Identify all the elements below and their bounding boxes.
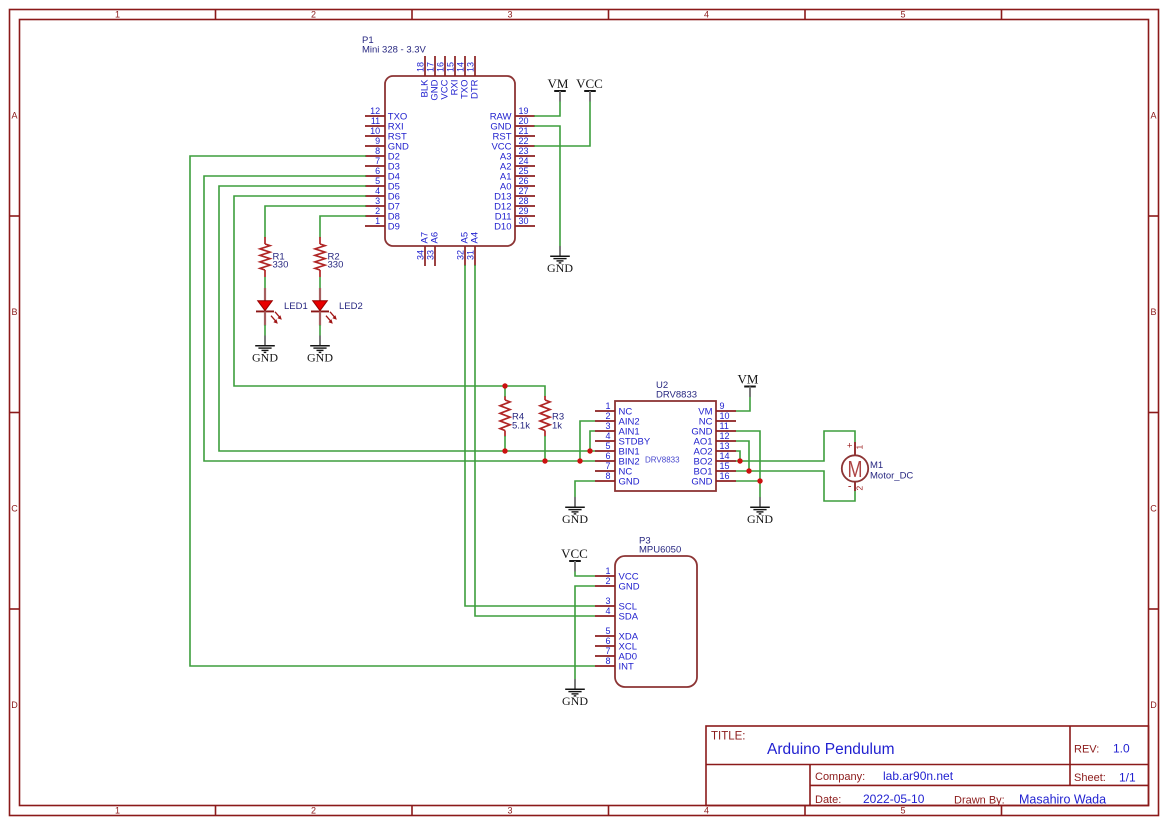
svg-text:D: D [11, 700, 18, 710]
svg-text:15: 15 [720, 461, 730, 471]
svg-text:6: 6 [375, 166, 380, 176]
P1 pin 3 D7 [365, 196, 400, 213]
svg-text:2022-05-10: 2022-05-10 [863, 792, 925, 806]
svg-text:30: 30 [519, 216, 529, 226]
P3 pin 3 SCL [595, 596, 637, 613]
svg-text:15: 15 [446, 62, 456, 72]
svg-text:GND: GND [562, 694, 588, 708]
svg-text:GND: GND [747, 512, 773, 526]
svg-text:5: 5 [375, 176, 380, 186]
wire AIN1 branch [590, 431, 595, 451]
svg-text:11: 11 [720, 421, 729, 431]
wire VM9 [736, 397, 750, 411]
power VCC at P3 [561, 546, 588, 571]
U2 pin 2 AIN2 [595, 411, 640, 428]
node AIN2-BIN2 [577, 458, 582, 463]
svg-text:20: 20 [519, 116, 529, 126]
P1 pin 5 D5 [365, 176, 400, 193]
svg-text:28: 28 [519, 196, 529, 206]
U2 pin 14 BO2 [693, 451, 736, 468]
U2 pin 16 GND [691, 471, 736, 488]
wire D6 to R4/R3 top [234, 196, 545, 397]
svg-text:MPU6050: MPU6050 [639, 545, 681, 556]
svg-text:SDA: SDA [619, 612, 639, 623]
svg-text:19: 19 [519, 106, 529, 116]
U2 pin 8 GND [595, 471, 640, 488]
wire AIN2 branch [580, 421, 595, 461]
P3 pin 8 INT [595, 656, 634, 673]
wire GND16 [736, 480, 760, 482]
P1 pin 12 TXO [365, 106, 407, 123]
svg-text:4: 4 [704, 806, 709, 816]
svg-text:INT: INT [619, 662, 635, 673]
P1 pin 15 RXI [446, 56, 461, 95]
P1 pin 10 RST [365, 126, 407, 143]
wire AO1 to BO1 [736, 441, 749, 471]
P3 pin 2 GND [595, 576, 640, 593]
U2 pin 1 NC [595, 401, 632, 418]
svg-text:1.0: 1.0 [1113, 742, 1130, 756]
P1 pin 17 GND [426, 56, 441, 101]
IC P3 MPU6050 [615, 536, 697, 688]
P1 pin 30 D10 [494, 216, 535, 233]
P1 pin 24 A2 [500, 156, 535, 173]
U2 pin 12 AO1 [693, 431, 736, 448]
wire RAW to VM [534, 102, 560, 117]
svg-text:Drawn By:: Drawn By: [954, 795, 1005, 807]
wire LED2 to GND [319, 325, 321, 336]
svg-text:1/1: 1/1 [1119, 771, 1136, 785]
svg-text:4: 4 [605, 606, 610, 616]
svg-text:5: 5 [900, 806, 905, 816]
svg-text:+: + [847, 441, 853, 452]
svg-text:24: 24 [519, 156, 529, 166]
svg-text:2: 2 [605, 576, 610, 586]
svg-text:330: 330 [273, 260, 289, 271]
svg-text:B: B [1150, 307, 1156, 317]
ground U2 right GND [747, 497, 773, 526]
wire P1 GND [534, 126, 560, 246]
svg-text:33: 33 [426, 250, 436, 260]
svg-text:29: 29 [519, 206, 529, 216]
P1 pin 20 GND [490, 116, 535, 133]
svg-text:M1: M1 [870, 460, 883, 471]
ground LED2 GND [307, 336, 333, 365]
wire LED1 to GND [264, 325, 266, 336]
P1 pin 31 A4 [466, 232, 481, 266]
svg-text:VCC: VCC [561, 546, 588, 561]
motor M1 Motor_DC [842, 441, 914, 493]
wire GND11 [736, 431, 760, 497]
node R3 bottom / BIN2 [542, 458, 547, 463]
svg-text:4: 4 [605, 431, 610, 441]
svg-text:13: 13 [466, 62, 476, 72]
resistor R3 [540, 396, 564, 437]
svg-text:10: 10 [370, 126, 380, 136]
wire R3 bottom [544, 436, 546, 461]
P1 pin 1 D9 [365, 216, 400, 233]
LED LED1 [256, 288, 308, 326]
P3 pin 7 AD0 [595, 646, 637, 663]
U2 pin 5 BIN1 [595, 441, 640, 458]
P1 pin 9 GND [365, 136, 409, 153]
svg-text:27: 27 [519, 186, 529, 196]
node R4 top [502, 383, 507, 388]
svg-text:3: 3 [375, 196, 380, 206]
svg-text:2: 2 [311, 10, 316, 20]
svg-text:330: 330 [328, 260, 344, 271]
wire VCC1 [575, 572, 595, 577]
P1 pin 32 A5 [456, 232, 471, 266]
wire R2 to LED2 [319, 277, 321, 289]
P1 pin 23 A3 [500, 146, 535, 163]
svg-text:6: 6 [605, 451, 610, 461]
svg-text:6: 6 [605, 636, 610, 646]
P1 pin 18 BLK [416, 56, 431, 97]
svg-text:18: 18 [416, 62, 426, 72]
svg-text:23: 23 [519, 146, 529, 156]
svg-text:7: 7 [605, 461, 610, 471]
P1 pin 19 RAW [490, 106, 535, 123]
wire D7 to R1 [265, 206, 366, 238]
svg-text:10: 10 [720, 411, 730, 421]
P1 pin 14 TXO [456, 56, 471, 99]
svg-text:GND: GND [691, 477, 712, 488]
svg-text:7: 7 [605, 646, 610, 656]
svg-text:TITLE:: TITLE: [711, 731, 746, 743]
svg-text:GND: GND [619, 582, 640, 593]
svg-text:3: 3 [507, 806, 512, 816]
svg-text:VCC: VCC [576, 76, 603, 91]
svg-text:1: 1 [115, 806, 120, 816]
svg-text:5.1k: 5.1k [512, 421, 530, 432]
wire BO1 to motor - [736, 471, 855, 501]
resistor R1 [260, 237, 288, 277]
svg-text:VM: VM [548, 76, 569, 91]
svg-text:1k: 1k [552, 421, 562, 432]
ground P3 GND [562, 679, 588, 708]
svg-text:13: 13 [720, 441, 730, 451]
P1 pin 25 A1 [500, 166, 535, 183]
P1 pin 33 A6 [426, 232, 441, 266]
svg-text:B: B [11, 307, 17, 317]
svg-text:8: 8 [605, 471, 610, 481]
P3 pin 6 XCL [595, 636, 637, 653]
svg-text:12: 12 [370, 106, 380, 116]
wire R1 to LED1 [264, 277, 266, 289]
wire BO2 to motor + [736, 431, 855, 461]
node GND11-GND16 [757, 478, 762, 483]
P1 pin 34 A7 [416, 232, 431, 266]
svg-text:3: 3 [605, 596, 610, 606]
svg-text:DRV8833: DRV8833 [656, 390, 697, 401]
ground U2 left GND [562, 497, 588, 526]
svg-text:1: 1 [605, 401, 610, 411]
svg-text:LED1: LED1 [284, 301, 308, 312]
U2 pin 11 GND [691, 421, 736, 438]
IC U2 DRV8833 [615, 380, 716, 491]
node AO1-BO1 [746, 468, 751, 473]
svg-text:C: C [11, 504, 18, 514]
svg-text:Masahiro Wada: Masahiro Wada [1019, 793, 1106, 807]
U2 pin 9 VM [698, 401, 736, 418]
svg-text:GND: GND [307, 351, 333, 365]
svg-text:D10: D10 [494, 222, 511, 233]
svg-text:A4: A4 [470, 232, 481, 244]
svg-text:A: A [1150, 111, 1156, 121]
svg-text:GND: GND [252, 351, 278, 365]
U2 pin 4 STDBY [595, 431, 651, 448]
svg-text:Company:: Company: [815, 771, 865, 783]
svg-text:17: 17 [426, 62, 436, 72]
svg-text:2: 2 [605, 411, 610, 421]
svg-text:-: - [848, 481, 852, 493]
svg-text:Motor_DC: Motor_DC [870, 471, 913, 482]
svg-text:D9: D9 [388, 222, 400, 233]
ground P1 GND [547, 246, 573, 275]
wire R4 top branch [504, 386, 506, 397]
svg-text:A6: A6 [430, 232, 441, 244]
power VM top [548, 76, 569, 101]
svg-text:16: 16 [436, 62, 446, 72]
P1 pin 28 D12 [494, 196, 535, 213]
svg-text:D: D [1150, 700, 1157, 710]
svg-text:21: 21 [519, 126, 529, 136]
svg-text:11: 11 [371, 116, 380, 126]
svg-text:DTR: DTR [470, 79, 481, 99]
svg-text:3: 3 [605, 421, 610, 431]
svg-text:1: 1 [115, 10, 120, 20]
svg-text:DRV8833: DRV8833 [645, 456, 680, 465]
U2 pin 10 NC [699, 411, 736, 428]
wire D4 to BIN2 row [204, 176, 595, 461]
wire R4 bottom [504, 436, 506, 451]
P3 pin 4 SDA [595, 606, 639, 623]
svg-text:4: 4 [704, 10, 709, 20]
svg-text:2: 2 [375, 206, 380, 216]
P3 pin 1 VCC [595, 566, 639, 583]
svg-text:8: 8 [605, 656, 610, 666]
svg-text:5: 5 [900, 10, 905, 20]
wire D2 to MPU INT [190, 156, 595, 666]
P3 pin 5 XDA [595, 626, 639, 643]
P1 pin 26 A0 [500, 176, 535, 193]
svg-text:9: 9 [375, 136, 380, 146]
svg-text:1: 1 [605, 566, 610, 576]
svg-text:31: 31 [466, 250, 476, 260]
svg-text:1: 1 [855, 445, 865, 450]
power VM at U2 [738, 372, 759, 397]
U2 pin 15 BO1 [693, 461, 736, 478]
P1 pin 27 D13 [494, 186, 535, 203]
wire VCC to P1 [534, 102, 590, 147]
svg-text:A: A [11, 111, 17, 121]
svg-text:5: 5 [605, 441, 610, 451]
svg-text:7: 7 [375, 156, 380, 166]
node AO2-BO2 [737, 458, 742, 463]
svg-text:8: 8 [375, 146, 380, 156]
wire A5 to SCL [465, 265, 595, 606]
wire A4 to SDA [475, 265, 595, 616]
wire U2 GND8 [575, 481, 595, 497]
P1 pin 11 RXI [365, 116, 404, 133]
wire D5 to BIN1 row [219, 186, 595, 451]
LED LED2 [311, 288, 363, 326]
svg-text:3: 3 [507, 10, 512, 20]
svg-text:2: 2 [311, 806, 316, 816]
svg-text:25: 25 [519, 166, 529, 176]
svg-text:22: 22 [519, 136, 529, 146]
svg-text:lab.ar90n.net: lab.ar90n.net [883, 769, 954, 783]
svg-text:14: 14 [456, 62, 466, 72]
P1 pin 8 D2 [365, 146, 400, 163]
wire AO2 to BO2 [736, 451, 740, 461]
svg-text:C: C [1150, 504, 1157, 514]
P1 pin 2 D8 [365, 206, 400, 223]
title block [706, 726, 1149, 806]
svg-text:14: 14 [720, 451, 730, 461]
svg-text:GND: GND [619, 477, 640, 488]
resistor R4 [500, 396, 530, 437]
svg-text:26: 26 [519, 176, 529, 186]
U2 pin 13 AO2 [693, 441, 736, 458]
P1 pin 13 DTR [466, 56, 481, 99]
P1 pin 6 D4 [365, 166, 400, 183]
P1 pin 22 VCC [491, 136, 535, 153]
svg-text:Sheet:: Sheet: [1074, 772, 1106, 784]
IC P1 Mini 328 - 3.3V [362, 35, 515, 246]
P1 pin 16 VCC [436, 56, 451, 100]
svg-text:REV:: REV: [1074, 744, 1099, 756]
svg-text:32: 32 [456, 250, 466, 260]
svg-text:9: 9 [720, 401, 725, 411]
svg-text:GND: GND [547, 261, 573, 275]
wire GND2 [575, 586, 595, 679]
svg-text:12: 12 [720, 431, 730, 441]
node R4 bottom / BIN1 [502, 448, 507, 453]
ground LED1 GND [252, 336, 278, 365]
svg-text:Arduino Pendulum: Arduino Pendulum [767, 741, 895, 758]
svg-text:1: 1 [375, 216, 380, 226]
wire D8 to R2 [320, 216, 366, 238]
svg-text:GND: GND [562, 512, 588, 526]
svg-text:4: 4 [375, 186, 380, 196]
svg-text:Date:: Date: [815, 794, 841, 806]
svg-text:LED2: LED2 [339, 301, 363, 312]
resistor R2 [315, 237, 343, 277]
svg-text:34: 34 [416, 250, 426, 260]
svg-text:2: 2 [855, 486, 865, 491]
P1 pin 7 D3 [365, 156, 400, 173]
svg-text:16: 16 [720, 471, 730, 481]
svg-text:Mini 328 - 3.3V: Mini 328 - 3.3V [362, 45, 427, 56]
P1 pin 29 D11 [495, 206, 535, 223]
U2 pin 3 AIN1 [595, 421, 640, 438]
svg-text:VM: VM [738, 372, 759, 387]
svg-text:M: M [848, 456, 863, 482]
svg-text:5: 5 [605, 626, 610, 636]
power VCC top [576, 76, 603, 101]
U2 pin 6 BIN2 [595, 451, 640, 468]
P1 pin 4 D6 [365, 186, 400, 203]
node AIN1-BIN1 [587, 448, 592, 453]
P1 pin 21 RST [493, 126, 536, 143]
U2 pin 7 NC [595, 461, 632, 478]
